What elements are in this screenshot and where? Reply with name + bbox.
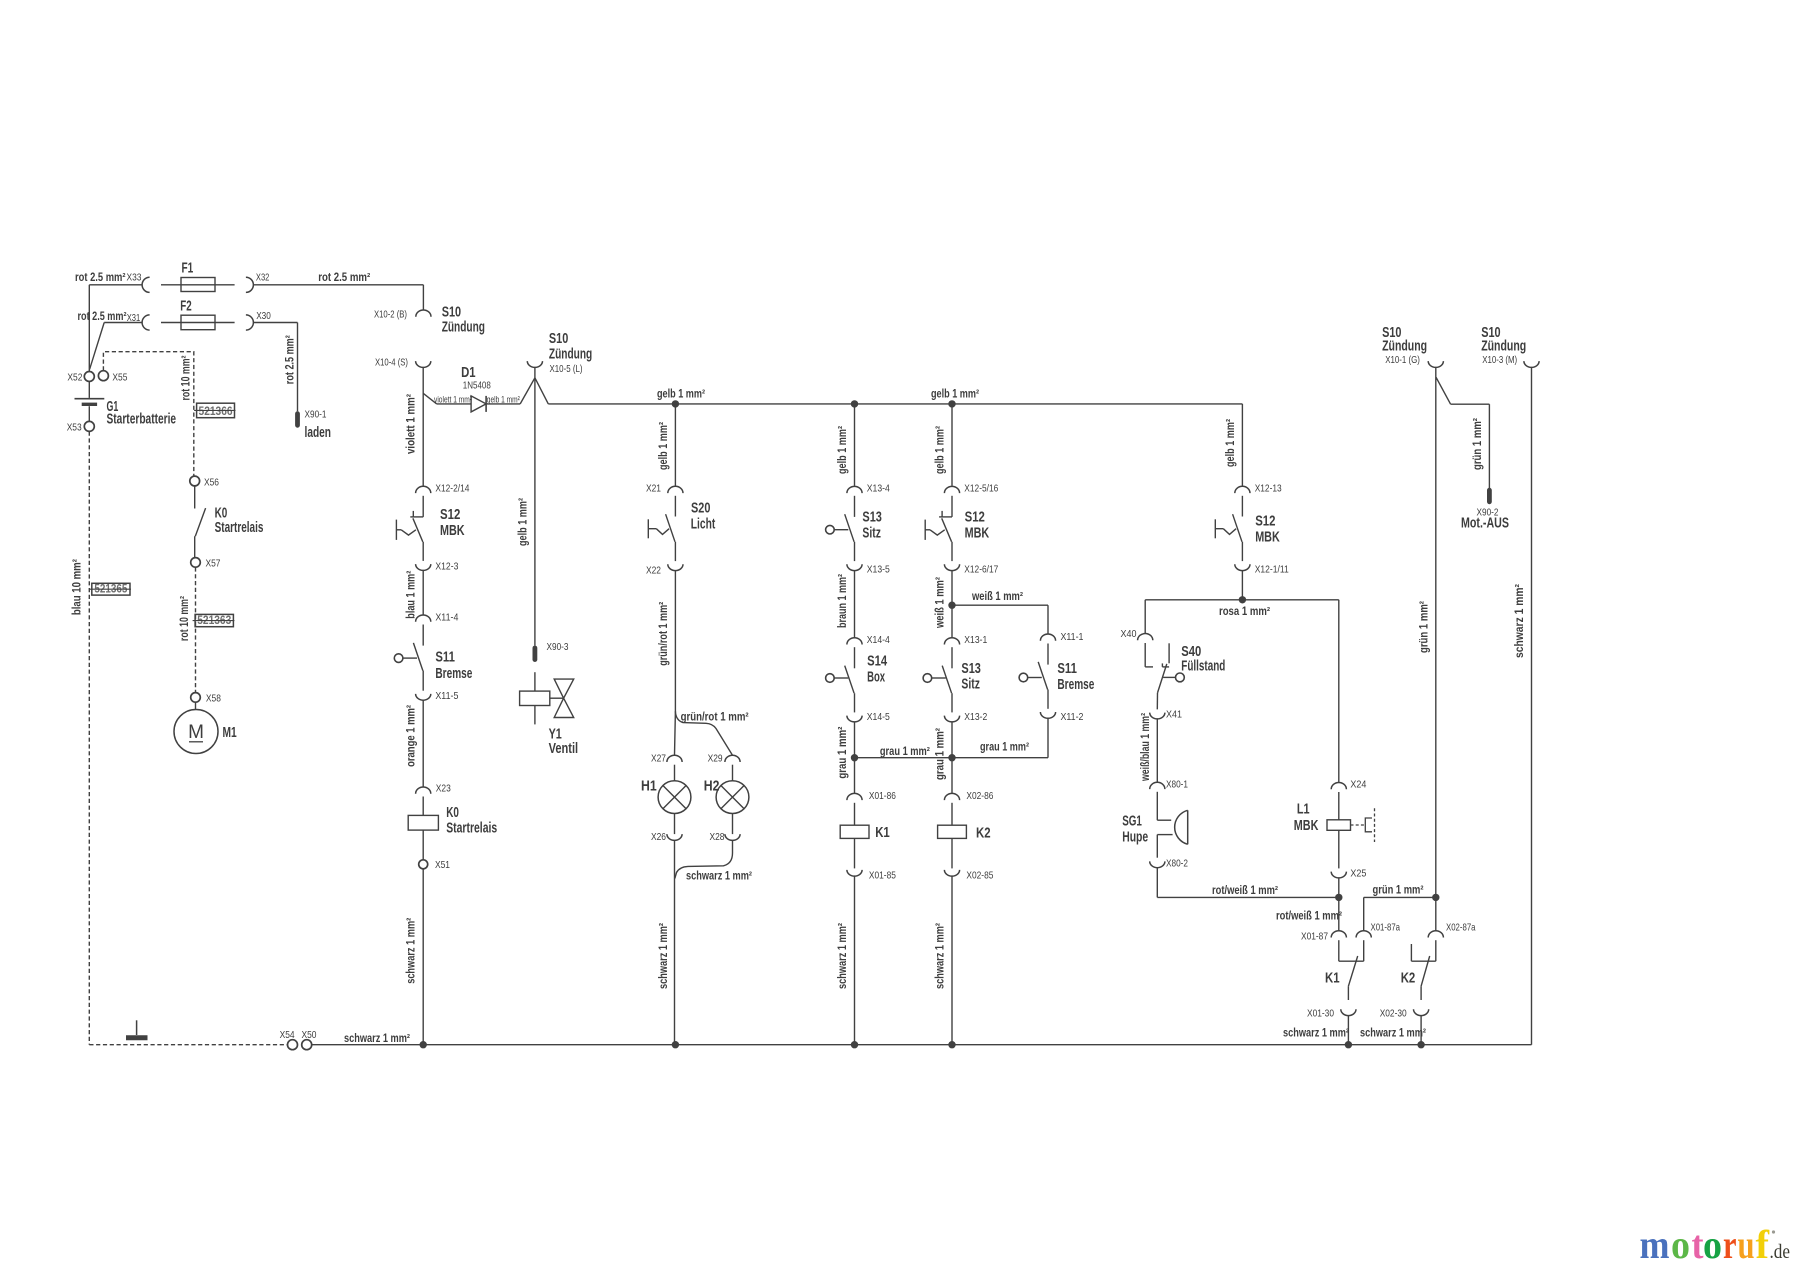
svg-text:X10-3 (M): X10-3 (M) bbox=[1482, 354, 1517, 366]
svg-text:X02-86: X02-86 bbox=[966, 790, 993, 802]
connector X26 bbox=[674, 814, 676, 835]
wire blau 1 mm2 bbox=[422, 570, 424, 615]
connector X12-6/17 bbox=[944, 564, 959, 570]
node X57 bbox=[191, 558, 201, 568]
svg-text:K0: K0 bbox=[446, 805, 459, 821]
svg-text:1N5408: 1N5408 bbox=[463, 380, 491, 392]
junction grau node (K1) bbox=[851, 754, 858, 761]
svg-text:SG1: SG1 bbox=[1122, 814, 1142, 830]
wire gruen 1 mm2 from X10-1 down bbox=[1435, 367, 1437, 897]
wire rot 2.5 mm2 from X30 to charge connector bbox=[253, 322, 297, 324]
svg-text:schwarz 1 mm²: schwarz 1 mm² bbox=[344, 1033, 410, 1045]
svg-text:S11: S11 bbox=[435, 650, 455, 666]
node X51 bbox=[419, 860, 428, 869]
svg-text:X26: X26 bbox=[651, 831, 666, 843]
svg-text:rot 2.5 mm²: rot 2.5 mm² bbox=[75, 272, 126, 284]
connector X29 bbox=[725, 755, 740, 762]
connector X11-5 bbox=[416, 694, 431, 700]
wire to X41 bbox=[1156, 693, 1158, 710]
svg-text:X14-5: X14-5 bbox=[867, 711, 890, 723]
wire schwarz 1 mm2 (K2) to rail bbox=[951, 876, 953, 1044]
svg-text:X32: X32 bbox=[256, 272, 270, 284]
connector X13-4 bbox=[847, 486, 862, 493]
svg-text:rot 2.5 mm²: rot 2.5 mm² bbox=[284, 335, 296, 384]
svg-text:Zündung: Zündung bbox=[442, 320, 485, 336]
gelb 1 mm2 bus bbox=[548, 403, 1242, 405]
wire rot 10 mm2 from X55 to start relay contact (dashed) bbox=[103, 352, 193, 476]
connector X12-5/16 bbox=[944, 486, 959, 493]
part number 521366 bbox=[197, 403, 235, 418]
svg-text:rot 10 mm²: rot 10 mm² bbox=[181, 355, 193, 400]
svg-text:X12-6/17: X12-6/17 bbox=[964, 563, 998, 575]
svg-text:X24: X24 bbox=[1350, 779, 1366, 791]
svg-text:X11-1: X11-1 bbox=[1061, 631, 1084, 643]
switch S13 Sitz (1) bbox=[854, 496, 856, 517]
node X56 bbox=[190, 476, 200, 486]
wire fork to lamps H1/H2 bbox=[675, 712, 732, 756]
wire gelb 1 mm2 from X10-5 fork to X90-3 bbox=[534, 378, 536, 646]
wire rot 2.5 mm2 from X32 to ignition switch S10 terminal B bbox=[253, 284, 423, 286]
switch S40 Fuellstand bbox=[1144, 643, 1146, 667]
svg-text:schwarz 1 mm²: schwarz 1 mm² bbox=[1283, 1028, 1349, 1040]
svg-text:X01-30: X01-30 bbox=[1307, 1008, 1334, 1020]
svg-text:violett 1 mm²: violett 1 mm² bbox=[434, 394, 472, 405]
wire rot 10 mm2 from X57 to X58 (dashed) bbox=[195, 567, 197, 692]
junction at ground rail (K0 branch) bbox=[420, 1041, 427, 1048]
wire grau 1 mm2 (K2) bbox=[951, 722, 953, 793]
svg-text:X11-2: X11-2 bbox=[1061, 711, 1084, 723]
junction on bus at H-lamp column bbox=[672, 400, 679, 407]
svg-text:X22: X22 bbox=[646, 565, 661, 577]
relay contact K2 bbox=[1410, 944, 1412, 961]
svg-text:rot 2.5 mm²: rot 2.5 mm² bbox=[78, 311, 127, 323]
connector X90-2 Mot.-AUS bbox=[1487, 490, 1492, 502]
svg-text:X90-3: X90-3 bbox=[547, 641, 569, 653]
svg-text:Bremse: Bremse bbox=[1057, 677, 1094, 693]
svg-text:X41: X41 bbox=[1166, 709, 1182, 721]
svg-text:rosa 1 mm²: rosa 1 mm² bbox=[1219, 606, 1270, 618]
svg-text:schwarz 1 mm²: schwarz 1 mm² bbox=[837, 923, 849, 989]
svg-text:grün 1 mm²: grün 1 mm² bbox=[1418, 601, 1430, 653]
diode D1 1N5408 bbox=[437, 403, 471, 405]
fuse F1 bbox=[161, 284, 235, 286]
connector X14-5 bbox=[847, 716, 862, 722]
svg-text:blau 10 mm²: blau 10 mm² bbox=[72, 559, 84, 615]
svg-text:521366: 521366 bbox=[199, 406, 233, 418]
wire schwarz 1 mm2 (K1 contact) bbox=[1347, 1016, 1349, 1045]
lamp H2 bbox=[732, 765, 734, 781]
wire grau 1 mm2 bbox=[854, 722, 856, 793]
junction at ground rail (K1 contact) bbox=[1345, 1041, 1352, 1048]
connector X12-13 bbox=[1235, 486, 1250, 493]
svg-text:X31: X31 bbox=[127, 312, 141, 324]
svg-text:X12-1/11: X12-1/11 bbox=[1255, 563, 1289, 575]
svg-text:X13-2: X13-2 bbox=[964, 711, 987, 723]
connector X02-86 bbox=[944, 793, 959, 800]
node X53 bbox=[84, 421, 94, 431]
svg-text:schwarz 1 mm²: schwarz 1 mm² bbox=[406, 918, 418, 984]
svg-text:grau 1 mm²: grau 1 mm² bbox=[934, 728, 946, 780]
svg-text:Füllstand: Füllstand bbox=[1181, 659, 1225, 675]
svg-text:violett 1 mm²: violett 1 mm² bbox=[406, 394, 418, 454]
connector X80-2 bbox=[1150, 861, 1165, 867]
connector X01-85 bbox=[847, 870, 862, 876]
connector X24 bbox=[1331, 782, 1346, 789]
relay coil K1 bbox=[854, 803, 856, 825]
connector X41 bbox=[1150, 713, 1165, 719]
switch S20 Licht bbox=[674, 496, 676, 517]
svg-text:X10-4 (S): X10-4 (S) bbox=[375, 356, 408, 368]
svg-text:schwarz 1 mm²: schwarz 1 mm² bbox=[1360, 1028, 1426, 1040]
svg-text:X01-87a: X01-87a bbox=[1371, 922, 1401, 934]
svg-text:X56: X56 bbox=[204, 476, 219, 488]
battery G1 Starterbatterie bbox=[88, 382, 90, 398]
svg-text:X50: X50 bbox=[302, 1029, 317, 1041]
ignition switch S10 terminal X10-3 (M) bbox=[1524, 361, 1539, 367]
svg-text:X21: X21 bbox=[646, 483, 661, 495]
weiss 1 mm2 link to S11 Bremse (2) bbox=[952, 604, 1048, 606]
svg-text:gelb 1 mm²: gelb 1 mm² bbox=[657, 389, 705, 401]
connector X31 bbox=[142, 315, 150, 330]
svg-text:X01-87: X01-87 bbox=[1301, 931, 1328, 943]
wire rot 2.5 mm2 from battery to fuse F2 bbox=[104, 322, 142, 324]
connector X01-87a bbox=[1356, 931, 1371, 938]
switch S11 Bremse (1) bbox=[422, 625, 424, 646]
svg-text:S10: S10 bbox=[442, 305, 461, 321]
relay coil K0 Startrelais bbox=[422, 797, 424, 816]
svg-text:laden: laden bbox=[305, 425, 332, 441]
svg-text:X53: X53 bbox=[67, 421, 82, 433]
wire gelb 1 mm2 to S20 bbox=[674, 404, 676, 486]
svg-text:Licht: Licht bbox=[691, 517, 716, 533]
junction at ground rail (K2 contact) bbox=[1417, 1041, 1424, 1048]
svg-text:Sitz: Sitz bbox=[961, 677, 980, 693]
junction weiss node bbox=[948, 602, 955, 609]
svg-text:Bremse: Bremse bbox=[435, 666, 472, 682]
svg-text:H1: H1 bbox=[641, 779, 657, 795]
connector X11-2 bbox=[1040, 712, 1055, 718]
node X52 bbox=[84, 372, 94, 382]
mechanical link (dashed) of L1 bbox=[1351, 824, 1365, 826]
svg-text:schwarz 1 mm²: schwarz 1 mm² bbox=[658, 923, 670, 989]
switch S12 MBK (3) bbox=[1241, 496, 1243, 517]
svg-text:schwarz 1 mm²: schwarz 1 mm² bbox=[934, 923, 946, 989]
svg-text:rot/weiß 1 mm²: rot/weiß 1 mm² bbox=[1276, 911, 1342, 923]
svg-text:grün/rot 1 mm²: grün/rot 1 mm² bbox=[681, 711, 749, 723]
connector X22 bbox=[668, 564, 683, 570]
svg-text:Zündung: Zündung bbox=[1481, 339, 1526, 355]
svg-text:X12-13: X12-13 bbox=[1255, 483, 1282, 495]
junction rosa node bbox=[1239, 596, 1246, 603]
svg-text:X58: X58 bbox=[206, 692, 221, 704]
wire braun 1 mm2 bbox=[854, 571, 856, 638]
junction at ground rail (K1) bbox=[851, 1041, 858, 1048]
svg-text:X01-85: X01-85 bbox=[869, 869, 896, 881]
wire rosa 1 mm2 bbox=[1241, 571, 1243, 600]
svg-text:X14-4: X14-4 bbox=[867, 634, 890, 646]
wire gruen/rot 1 mm2 bbox=[674, 571, 676, 712]
svg-text:braun 1 mm²: braun 1 mm² bbox=[837, 574, 849, 628]
svg-text:gelb 1 mm²: gelb 1 mm² bbox=[931, 389, 979, 401]
part number 521365 bbox=[92, 583, 130, 595]
wire tap to diode D1 bbox=[423, 393, 437, 404]
connector X11-4 bbox=[416, 615, 431, 622]
wire gruen down to X02-87a bbox=[1435, 897, 1437, 930]
connector X14-4 bbox=[847, 638, 862, 645]
wire violett 1 mm2 from X10-4 bbox=[422, 367, 424, 486]
connector X02-30 bbox=[1414, 1009, 1429, 1015]
junction at ground rail (K2) bbox=[948, 1041, 955, 1048]
svg-text:grau 1 mm²: grau 1 mm² bbox=[837, 726, 849, 778]
svg-text:motoruf: motoruf bbox=[1640, 1222, 1770, 1267]
wire schwarz 1 mm2 (K1) to rail bbox=[854, 876, 856, 1044]
wire schwarz (battery minus dashed, bottom) bbox=[89, 1044, 287, 1046]
svg-text:F2: F2 bbox=[180, 299, 191, 315]
switch S12 MBK (2) bbox=[951, 496, 953, 517]
ignition switch S10 terminal X10-1 (G) bbox=[1428, 361, 1443, 367]
svg-text:MBK: MBK bbox=[1294, 818, 1319, 834]
wire schwarz 1 mm2 to ground rail bbox=[422, 869, 424, 1045]
rosa 1 mm2 distribution wire bbox=[1145, 599, 1339, 601]
svg-text:X27: X27 bbox=[651, 752, 666, 764]
svg-text:L1: L1 bbox=[1297, 802, 1310, 818]
svg-text:S12: S12 bbox=[440, 507, 460, 523]
connector X90-1 laden bbox=[295, 414, 300, 426]
svg-text:X80-1: X80-1 bbox=[1166, 779, 1188, 791]
svg-text:gelb 1 mm²: gelb 1 mm² bbox=[658, 422, 670, 470]
svg-text:grün 1 mm²: grün 1 mm² bbox=[1472, 418, 1484, 470]
connector X21 bbox=[668, 486, 683, 493]
svg-text:schwarz 1 mm²: schwarz 1 mm² bbox=[686, 871, 752, 883]
svg-text:X90-1: X90-1 bbox=[305, 408, 327, 420]
svg-text:F1: F1 bbox=[182, 260, 194, 276]
ignition switch S10 terminal X10-2 (B) bbox=[416, 310, 431, 317]
svg-text:S12: S12 bbox=[1255, 514, 1275, 530]
ground (chassis) bbox=[136, 1020, 138, 1035]
connector X13-5 bbox=[847, 564, 862, 570]
svg-text:X28: X28 bbox=[710, 831, 725, 843]
connector X27 bbox=[667, 755, 682, 762]
svg-text:K1: K1 bbox=[875, 825, 890, 841]
wire branch to Mot.-AUS bbox=[1436, 377, 1451, 404]
starter motor M1 bbox=[195, 702, 197, 709]
wire weiss 1 mm2 bbox=[951, 571, 953, 638]
connector X33 bbox=[142, 277, 149, 292]
svg-text:X54: X54 bbox=[280, 1029, 295, 1041]
svg-text:X10-5 (L): X10-5 (L) bbox=[550, 363, 583, 375]
connector X13-1 bbox=[944, 638, 959, 645]
svg-text:X52: X52 bbox=[67, 371, 82, 383]
junction at ground rail (lamp branch) bbox=[672, 1041, 679, 1048]
svg-text:grau 1 mm²: grau 1 mm² bbox=[880, 746, 930, 758]
svg-text:Box: Box bbox=[867, 670, 885, 686]
switch S11 Bremse (2) bbox=[1047, 644, 1049, 665]
node X55 bbox=[98, 371, 108, 381]
svg-text:X57: X57 bbox=[206, 557, 221, 569]
wire schwarz 1 mm2 (K2 contact) bbox=[1420, 1016, 1422, 1045]
connector X12-3 bbox=[416, 564, 431, 570]
connector X01-87 bbox=[1331, 931, 1346, 938]
svg-text:Mot.-AUS: Mot.-AUS bbox=[1461, 516, 1509, 532]
svg-text:S14: S14 bbox=[867, 654, 887, 670]
grau 1 mm2 link to S13/S11 bbox=[855, 757, 1049, 759]
svg-text:S40: S40 bbox=[1181, 644, 1201, 660]
svg-text:X80-2: X80-2 bbox=[1166, 858, 1188, 870]
connector X25 bbox=[1331, 872, 1346, 878]
svg-text:S20: S20 bbox=[691, 501, 710, 517]
connector X11-1 bbox=[1040, 634, 1055, 641]
svg-text:weiß/blau 1 mm²: weiß/blau 1 mm² bbox=[1140, 713, 1152, 782]
svg-text:X25: X25 bbox=[1350, 868, 1366, 880]
part number 521363 bbox=[195, 614, 233, 626]
wire rot/weiss 1 mm2 to junction bbox=[1156, 868, 1158, 898]
svg-text:Sitz: Sitz bbox=[862, 526, 881, 542]
ignition switch S10 terminal X10-4 (S) bbox=[416, 361, 431, 367]
wire from F2 row down to battery terminal X52 bbox=[90, 323, 105, 370]
svg-text:X02-85: X02-85 bbox=[966, 869, 993, 881]
svg-text:K2: K2 bbox=[1401, 971, 1416, 987]
svg-text:X11-5: X11-5 bbox=[435, 690, 458, 702]
junction on bus at K1 column bbox=[851, 400, 858, 407]
wire fork at X10-5 (L) bbox=[520, 378, 535, 404]
relay coil K2 bbox=[951, 803, 953, 825]
connector X02-85 bbox=[944, 870, 959, 876]
connector X90-3 bbox=[533, 648, 538, 660]
svg-text:gelb 1 mm²: gelb 1 mm² bbox=[487, 394, 520, 405]
svg-text:X55: X55 bbox=[112, 371, 127, 383]
horn SG1 Hupe bbox=[1156, 792, 1158, 820]
svg-text:Zündung: Zündung bbox=[1382, 339, 1427, 355]
gruen 1 mm2 link to K1 contact bbox=[1364, 896, 1436, 898]
connector X32 bbox=[246, 277, 254, 292]
svg-text:Ventil: Ventil bbox=[549, 741, 579, 757]
svg-text:schwarz 1 mm²: schwarz 1 mm² bbox=[1514, 584, 1526, 658]
node X50 bbox=[302, 1040, 312, 1050]
switch S12 MBK (1) bbox=[422, 496, 424, 517]
svg-text:rot/weiß 1 mm²: rot/weiß 1 mm² bbox=[1212, 885, 1278, 897]
wire gelb 1 mm2 to S13 bbox=[854, 404, 856, 486]
node X58 bbox=[191, 693, 201, 703]
wire to rot/weiss junction bbox=[1338, 878, 1340, 931]
svg-text:X10-2 (B): X10-2 (B) bbox=[374, 308, 407, 320]
wire weiss/blau 1 mm2 bbox=[1156, 719, 1158, 782]
svg-text:X40: X40 bbox=[1121, 628, 1137, 640]
svg-text:grün 1 mm²: grün 1 mm² bbox=[1373, 885, 1424, 897]
svg-text:M1: M1 bbox=[223, 725, 237, 741]
connector X12-1/11 bbox=[1235, 564, 1250, 570]
connector X40 bbox=[1138, 633, 1153, 640]
junction grau node (K2) bbox=[948, 754, 955, 761]
junction gruen node bbox=[1432, 894, 1439, 901]
wire schwarz 1 mm2 merge from lamps bbox=[675, 840, 733, 878]
svg-text:X11-4: X11-4 bbox=[435, 612, 458, 624]
svg-text:MBK: MBK bbox=[1255, 530, 1280, 546]
svg-text:K1: K1 bbox=[1325, 971, 1340, 987]
svg-text:blau 1 mm²: blau 1 mm² bbox=[406, 571, 418, 619]
svg-text:grau 1 mm²: grau 1 mm² bbox=[980, 741, 1029, 753]
svg-text:X13-1: X13-1 bbox=[964, 634, 987, 646]
svg-text:Hupe: Hupe bbox=[1122, 830, 1148, 846]
svg-text:M: M bbox=[188, 722, 204, 743]
junction on bus at K2 column bbox=[948, 400, 955, 407]
ignition switch S10 terminal X10-5 (L) bbox=[527, 361, 542, 367]
svg-text:X13-5: X13-5 bbox=[867, 563, 890, 575]
wire rot 2.5 mm2 from battery to fuse F1 bbox=[89, 284, 142, 286]
svg-text:X33: X33 bbox=[127, 272, 142, 284]
valve Y1 Ventil bbox=[534, 672, 536, 691]
connector X01-86 bbox=[847, 793, 862, 800]
node X54 bbox=[288, 1040, 298, 1050]
switch S13 Sitz (2) bbox=[951, 647, 953, 668]
start relay contact K0 bbox=[194, 486, 196, 509]
svg-text:gelb 1 mm²: gelb 1 mm² bbox=[1225, 419, 1237, 467]
junction rot/weiss node bbox=[1335, 894, 1342, 901]
svg-text:X02-30: X02-30 bbox=[1380, 1008, 1407, 1020]
svg-text:MBK: MBK bbox=[440, 523, 465, 539]
connector X28 bbox=[732, 814, 734, 835]
connector X13-2 bbox=[944, 716, 959, 722]
svg-text:X30: X30 bbox=[256, 310, 271, 322]
svg-text:X29: X29 bbox=[708, 752, 723, 764]
svg-text:weiß 1 mm²: weiß 1 mm² bbox=[971, 591, 1023, 603]
svg-text:X12-2/14: X12-2/14 bbox=[435, 483, 469, 495]
connector X12-2/14 bbox=[416, 486, 431, 493]
svg-text:gelb 1 mm²: gelb 1 mm² bbox=[837, 426, 849, 474]
svg-text:X10-1 (G): X10-1 (G) bbox=[1385, 354, 1420, 366]
indicator L1 MBK bbox=[1338, 792, 1340, 820]
wire orange 1 mm2 bbox=[422, 700, 424, 786]
svg-text:K2: K2 bbox=[976, 826, 991, 842]
fuse F2 bbox=[161, 322, 235, 324]
svg-text:gelb 1 mm²: gelb 1 mm² bbox=[517, 498, 529, 546]
svg-text:gelb 1 mm²: gelb 1 mm² bbox=[934, 426, 946, 474]
svg-text:orange 1 mm²: orange 1 mm² bbox=[406, 705, 418, 767]
svg-text:Startrelais: Startrelais bbox=[215, 520, 264, 536]
svg-text:MBK: MBK bbox=[965, 526, 990, 542]
svg-text:rot 10 mm²: rot 10 mm² bbox=[179, 596, 191, 641]
svg-text:weiß 1 mm²: weiß 1 mm² bbox=[934, 577, 946, 629]
ground rail schwarz 1 mm2 bbox=[312, 1044, 1532, 1046]
svg-text:S11: S11 bbox=[1057, 661, 1077, 677]
switch S14 Box bbox=[854, 647, 856, 668]
wire gelb 1 mm2 to S12 (2) bbox=[951, 404, 953, 486]
relay contact K1 bbox=[1338, 940, 1340, 961]
svg-text:X23: X23 bbox=[436, 782, 451, 794]
svg-text:X51: X51 bbox=[435, 859, 450, 871]
connector X02-87a bbox=[1428, 931, 1443, 938]
svg-text:rot 2.5 mm²: rot 2.5 mm² bbox=[318, 272, 370, 284]
svg-text:X12-5/16: X12-5/16 bbox=[964, 483, 998, 495]
svg-text:H2: H2 bbox=[704, 779, 720, 795]
svg-text:S13: S13 bbox=[961, 661, 981, 677]
svg-text:Startrelais: Startrelais bbox=[446, 821, 497, 837]
svg-text:X12-3: X12-3 bbox=[435, 560, 458, 572]
connector X23 bbox=[416, 787, 431, 794]
svg-text:S12: S12 bbox=[965, 510, 985, 526]
connector X30 bbox=[246, 315, 253, 330]
svg-text:X01-86: X01-86 bbox=[869, 790, 896, 802]
svg-text:Zündung: Zündung bbox=[549, 346, 592, 362]
svg-text:S13: S13 bbox=[862, 510, 882, 526]
svg-text:X02-87a: X02-87a bbox=[1446, 922, 1476, 934]
connector X01-30 bbox=[1341, 1009, 1356, 1015]
svg-text:Starterbatterie: Starterbatterie bbox=[107, 412, 177, 428]
svg-text:.de: .de bbox=[1770, 1242, 1791, 1263]
svg-text:X13-4: X13-4 bbox=[867, 483, 890, 495]
connector X80-1 bbox=[1150, 782, 1165, 789]
svg-text:grün/rot 1 mm²: grün/rot 1 mm² bbox=[658, 602, 670, 666]
svg-text:S10: S10 bbox=[549, 331, 568, 347]
